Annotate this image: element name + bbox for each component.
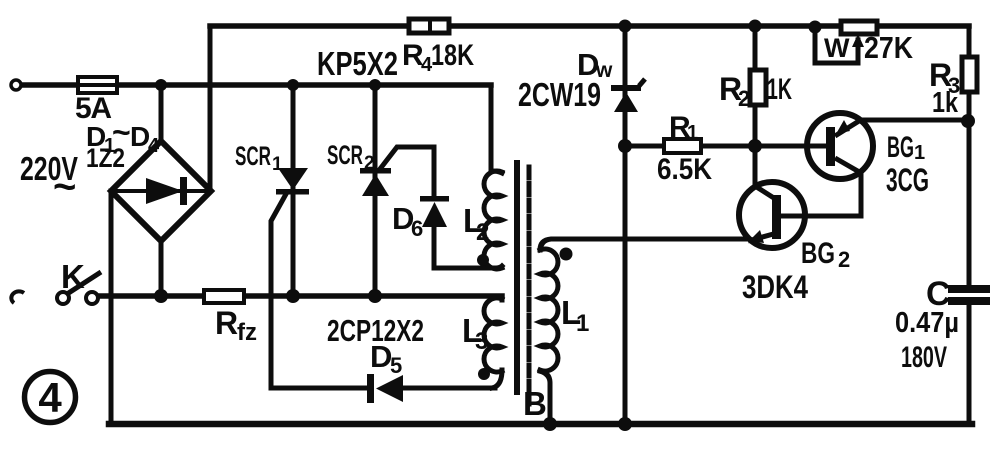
- svg-text:4: 4: [38, 374, 62, 421]
- svg-text:27K: 27K: [864, 30, 914, 65]
- svg-text:3: 3: [475, 328, 488, 355]
- svg-text:1: 1: [914, 142, 925, 164]
- svg-text:1K: 1K: [767, 73, 792, 106]
- svg-text:180V: 180V: [901, 341, 947, 374]
- svg-text:R: R: [215, 305, 238, 341]
- svg-text:KP5X2: KP5X2: [317, 45, 398, 82]
- svg-text:0.47µ: 0.47µ: [895, 307, 959, 339]
- svg-text:2: 2: [364, 153, 375, 174]
- svg-text:K: K: [61, 258, 85, 295]
- svg-text:BG: BG: [887, 131, 914, 164]
- svg-text:18K: 18K: [431, 39, 474, 72]
- svg-text:6: 6: [411, 216, 423, 241]
- svg-text:1: 1: [576, 310, 589, 337]
- svg-text:~: ~: [53, 165, 76, 209]
- svg-text:1: 1: [272, 154, 283, 175]
- svg-text:1k: 1k: [932, 87, 959, 119]
- svg-text:SCR: SCR: [235, 141, 271, 171]
- svg-text:fz: fz: [237, 319, 257, 346]
- svg-text:1: 1: [687, 122, 698, 144]
- svg-text:2: 2: [738, 86, 750, 111]
- svg-text:2: 2: [838, 247, 850, 272]
- svg-text:W: W: [824, 33, 850, 63]
- svg-text:B: B: [523, 385, 547, 422]
- svg-text:2: 2: [476, 219, 489, 246]
- svg-text:3DK4: 3DK4: [742, 269, 808, 305]
- svg-text:2CW19: 2CW19: [518, 76, 601, 113]
- svg-text:1Z2: 1Z2: [86, 143, 125, 173]
- svg-text:5: 5: [390, 353, 402, 378]
- svg-text:BG: BG: [801, 237, 835, 270]
- svg-text:4: 4: [148, 135, 160, 157]
- svg-text:3CG: 3CG: [886, 162, 929, 198]
- svg-text:6.5K: 6.5K: [657, 153, 712, 186]
- svg-text:SCR: SCR: [327, 140, 363, 170]
